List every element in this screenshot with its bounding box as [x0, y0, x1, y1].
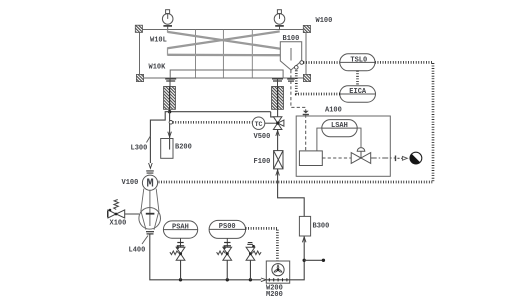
sensor box in A100 — [299, 151, 322, 166]
arrow up into V500 — [276, 131, 280, 136]
svg-text:L300: L300 — [131, 145, 148, 153]
svg-text:TSL0: TSL0 — [350, 56, 367, 64]
node: EICA tap circle on B100 funnel — [295, 66, 299, 70]
svg-text:EICA: EICA — [349, 88, 367, 96]
node: TSL0 tap circle on B100 — [300, 61, 304, 65]
PSAH stem and flanges — [180, 238, 182, 247]
gauge G1 (left, on vessel top) — [162, 10, 173, 30]
fan circle — [272, 264, 284, 276]
svg-text:W10L: W10L — [150, 37, 167, 45]
pipe F100 to valve V500 — [277, 130, 279, 151]
controller TC — [252, 117, 264, 129]
svg-text:B300: B300 — [313, 223, 330, 231]
vent valve (third) — [247, 242, 253, 245]
hatched column right — [272, 87, 284, 110]
instrument EICA — [340, 86, 376, 102]
stem right column — [277, 78, 279, 87]
control valve in A100 — [351, 148, 371, 164]
pipe from L400 down and right (bottom header) — [150, 235, 261, 280]
signal line B100 to TSL0 — [304, 61, 340, 64]
tank B200 — [161, 139, 173, 159]
relief valve X100 — [108, 200, 125, 219]
pipe fan box to B300 riser — [290, 236, 305, 280]
svg-text:V100: V100 — [122, 179, 139, 187]
analyzer unit A100 box — [296, 116, 390, 176]
vessel W100 outline — [140, 30, 307, 79]
arrow up into B300 — [302, 237, 306, 242]
vent funnel on A100 top — [303, 111, 309, 114]
filter F100 — [274, 151, 283, 169]
fan unit W200/M200 box — [266, 261, 289, 283]
svg-text:B200: B200 — [175, 144, 192, 152]
dashed arrow to drain — [397, 157, 402, 159]
valve under PS00 — [223, 246, 226, 249]
instrument LSAH — [322, 120, 357, 137]
three-way valve V500 — [273, 117, 284, 130]
corner hatch bottom-left — [136, 74, 143, 81]
vessel internal dividers — [196, 30, 253, 79]
svg-text:B100: B100 — [283, 35, 300, 43]
flange below L400 — [146, 231, 154, 234]
gauge G2 (right, on vessel top) — [274, 10, 285, 30]
heater B300 — [299, 216, 310, 236]
svg-text:W10K: W10K — [149, 64, 167, 72]
svg-text:X100: X100 — [110, 220, 127, 228]
dash-dot line valve out of A100 — [371, 157, 395, 159]
belt W10K lower tray — [170, 70, 283, 78]
corner hatch bottom-right — [303, 74, 310, 81]
valve under PSAH — [176, 246, 179, 249]
motor V100 — [142, 175, 157, 190]
junction dots on header — [179, 278, 182, 281]
pipe through fan box with ticks — [266, 279, 289, 281]
flange pair below vessel left — [165, 78, 283, 81]
arrow into fan box — [261, 278, 266, 282]
instrument PS00 — [209, 220, 246, 238]
signal line to TC — [173, 121, 253, 124]
instrument PSAH — [163, 221, 197, 238]
signal line EICA to B100 funnel tap — [296, 69, 340, 94]
junction dot right of B300 riser — [303, 259, 306, 262]
svg-text:F100: F100 — [254, 158, 271, 166]
long signal line from V100 motor — [159, 181, 433, 184]
svg-text:PSAH: PSAH — [172, 223, 189, 231]
flange bar — [395, 156, 396, 162]
LSAH connection lines — [317, 128, 361, 151]
svg-text:A100: A100 — [325, 107, 342, 115]
PS00 stem and flanges — [226, 238, 228, 247]
signal line TSL0 to EICA — [356, 71, 359, 86]
pipe B300 top to F100 — [278, 169, 305, 217]
svg-text:V500: V500 — [254, 133, 271, 141]
corner hatch top-left — [135, 25, 142, 32]
svg-text:M200: M200 — [266, 291, 283, 299]
flange pair below B100 funnel — [287, 78, 295, 81]
belt W10L upper band — [168, 31, 281, 55]
flange above motor — [146, 170, 154, 173]
drain symbol (half filled circle) — [410, 152, 422, 164]
label L300 with leader — [147, 136, 151, 143]
instrument TSL0 — [340, 54, 375, 71]
dashed line B100 outlet to A100 — [291, 70, 306, 151]
belt left end connectors — [167, 30, 169, 56]
hatched column left — [164, 87, 176, 110]
svg-text:L400: L400 — [129, 247, 146, 255]
svg-text:W100: W100 — [316, 17, 333, 25]
label L400 with leader — [142, 236, 148, 245]
svg-text:M: M — [147, 177, 154, 191]
junction dot under left column — [168, 110, 171, 113]
signal tap circle to TC — [169, 121, 173, 125]
stub with end dot — [304, 259, 323, 261]
pipe drop into B200 with arrow — [169, 112, 171, 150]
svg-text:PS00: PS00 — [219, 223, 236, 231]
dashed line sensor to valve — [322, 157, 351, 159]
pipe: left column bottom junction across to V500 — [170, 109, 274, 117]
agitator vessel L400 — [141, 189, 159, 230]
svg-text:LSAH: LSAH — [331, 122, 348, 130]
signal line PS00 to fan — [246, 228, 278, 261]
arrow up into F100 — [276, 170, 280, 175]
stem left column — [169, 78, 171, 87]
corner hatch top-right — [303, 25, 310, 32]
pipe X100 to L400 — [125, 213, 139, 215]
pipe L300 branch down to agitator — [150, 112, 169, 163]
svg-text:TC: TC — [255, 121, 263, 128]
signal line TSL0 right and down — [375, 62, 433, 182]
hopper B100 — [280, 42, 301, 70]
